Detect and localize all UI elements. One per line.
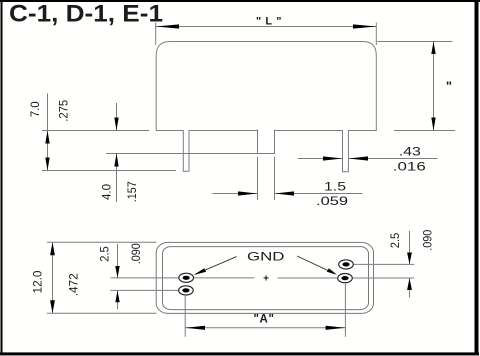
arrow 7.0 bottom [45, 158, 49, 171]
pin 3 upper-right [339, 260, 354, 269]
svg-text:": " [446, 79, 452, 94]
svg-text:.090: .090 [131, 243, 143, 264]
svg-text:.157: .157 [127, 181, 139, 202]
4.0 dim lower stem [116, 154, 118, 203]
arrowheads, bottom view [50, 242, 412, 330]
arrow 1.5 left (tip at tab left) [238, 191, 257, 195]
GND leader line right [297, 256, 335, 274]
height dim dimension line [433, 42, 435, 131]
height dim extension line top [377, 41, 452, 43]
A dim line [185, 327, 345, 329]
svg-text:" L ": " L " [256, 16, 282, 28]
height dim extension line bottom [394, 130, 455, 132]
1.5 dim line left segment [213, 193, 258, 195]
tab right extension line down [274, 157, 276, 200]
outer case outline [156, 242, 373, 313]
arrowheads, side view [45, 24, 435, 195]
right lead [343, 130, 349, 172]
inner case outline [163, 247, 369, 310]
pin 1 upper-left (GND) [179, 273, 194, 282]
12.0 dim extension line top [47, 241, 157, 243]
svg-text:.059: .059 [316, 194, 348, 208]
arrow 2.5 right up (tip row4) [407, 278, 412, 290]
svg-text:GND: GND [247, 250, 285, 264]
center seal tab [258, 130, 275, 154]
arrow .43 right (tip at lead right) [349, 156, 368, 160]
dim label 12.0 (rotated) [33, 271, 45, 294]
dim label 4.0 (rotated) [101, 184, 113, 200]
centerline upper-right pin row [346, 263, 414, 265]
dim label .090 left (rotated) [131, 243, 143, 264]
4.0 dim upper stem [116, 103, 118, 131]
svg-text:"A": "A" [253, 314, 274, 326]
GND leader arrow right [327, 268, 337, 275]
arrow 12.0 bottom [50, 300, 55, 313]
arrow 2.5 left down (tip row1) [115, 266, 119, 278]
dim label 7.0 (rotated) [30, 101, 42, 117]
arrow 2.5 right down (tip row3) [407, 253, 412, 265]
dim label .090 right (rotated) [423, 230, 435, 251]
arrow L left [156, 24, 179, 28]
pin 4 lower-right (GND) [338, 274, 353, 283]
dim L dimension line [156, 26, 377, 28]
dim label .157 (rotated) [127, 181, 139, 202]
svg-text:.472: .472 [69, 273, 81, 296]
12.0 dim extension line bottom [47, 312, 157, 314]
svg-text:+: + [263, 274, 269, 285]
body bottom extension line left (7.0 dim upper) [42, 130, 149, 132]
arrow .43 left (tip at lead left) [323, 156, 342, 160]
svg-text:.016: .016 [393, 159, 426, 173]
svg-text:.43: .43 [399, 144, 421, 158]
2.5 left dim lower stem [117, 290, 119, 309]
2.5 right dim upper stem [409, 231, 411, 264]
svg-text:C-1, D-1, E-1: C-1, D-1, E-1 [9, 1, 163, 28]
centerline pin row 1 right part [278, 277, 415, 279]
svg-text:2.5: 2.5 [99, 246, 111, 262]
dim label .275 (rotated) [59, 100, 71, 122]
centerline lower-left pin row [111, 289, 187, 291]
pin 2 lower-left [179, 286, 194, 295]
arrow 1.5 right (tip at tab right) [275, 191, 294, 195]
.43 dim line right segment (fraction bar) [349, 158, 438, 160]
dim label 2.5 right (rotated) [390, 233, 402, 249]
svg-text:1.5: 1.5 [324, 179, 346, 193]
7.0 dim line + stem [47, 94, 49, 171]
arrow A left [185, 326, 205, 330]
svg-text:4.0: 4.0 [101, 184, 113, 200]
.43 dim line left segment [298, 158, 343, 160]
arrow 4.0 down (tip at body bottom) [114, 118, 118, 131]
arrow 2.5 left up (tip row2) [115, 290, 119, 302]
svg-text:12.0: 12.0 [33, 271, 45, 294]
centerline pin row 1 (GND row) left part [111, 277, 255, 279]
tab bottom extension line (4.0 dim) [106, 153, 275, 155]
arrow A right [326, 326, 346, 330]
arrow height bottom [431, 118, 435, 131]
arrow 12.0 top [50, 242, 55, 255]
arrow 7.0 top [45, 131, 49, 144]
A dim extension line right [344, 284, 346, 337]
dim label 2.5 left (rotated) [99, 246, 111, 262]
GND leader arrow left [194, 268, 207, 275]
svg-text:.275: .275 [59, 100, 71, 122]
arrow height top [431, 42, 435, 55]
2.5 right dim lower stem [409, 278, 411, 297]
lead end extension line (7.0 dim lower) [42, 170, 176, 172]
dim L extension line right [375, 23, 377, 46]
arrow L right [353, 24, 376, 28]
A dim extension line left [184, 296, 186, 337]
12.0 dim line [52, 242, 54, 313]
arrow 4.0 up (tip at tab bottom) [114, 154, 118, 167]
svg-text:7.0: 7.0 [30, 101, 42, 117]
tab left extension line down [257, 157, 259, 200]
1.5 dim line right segment (fraction bar) [275, 193, 363, 195]
dim label .472 (rotated) [69, 273, 81, 296]
2.5 left dim upper stem [117, 244, 119, 278]
left lead [183, 130, 189, 171]
package body outline (side view) [156, 42, 376, 131]
dim L extension line left [155, 23, 157, 46]
svg-text:2.5: 2.5 [390, 233, 402, 249]
GND leader line left [196, 257, 237, 274]
svg-text:.090: .090 [423, 230, 435, 251]
